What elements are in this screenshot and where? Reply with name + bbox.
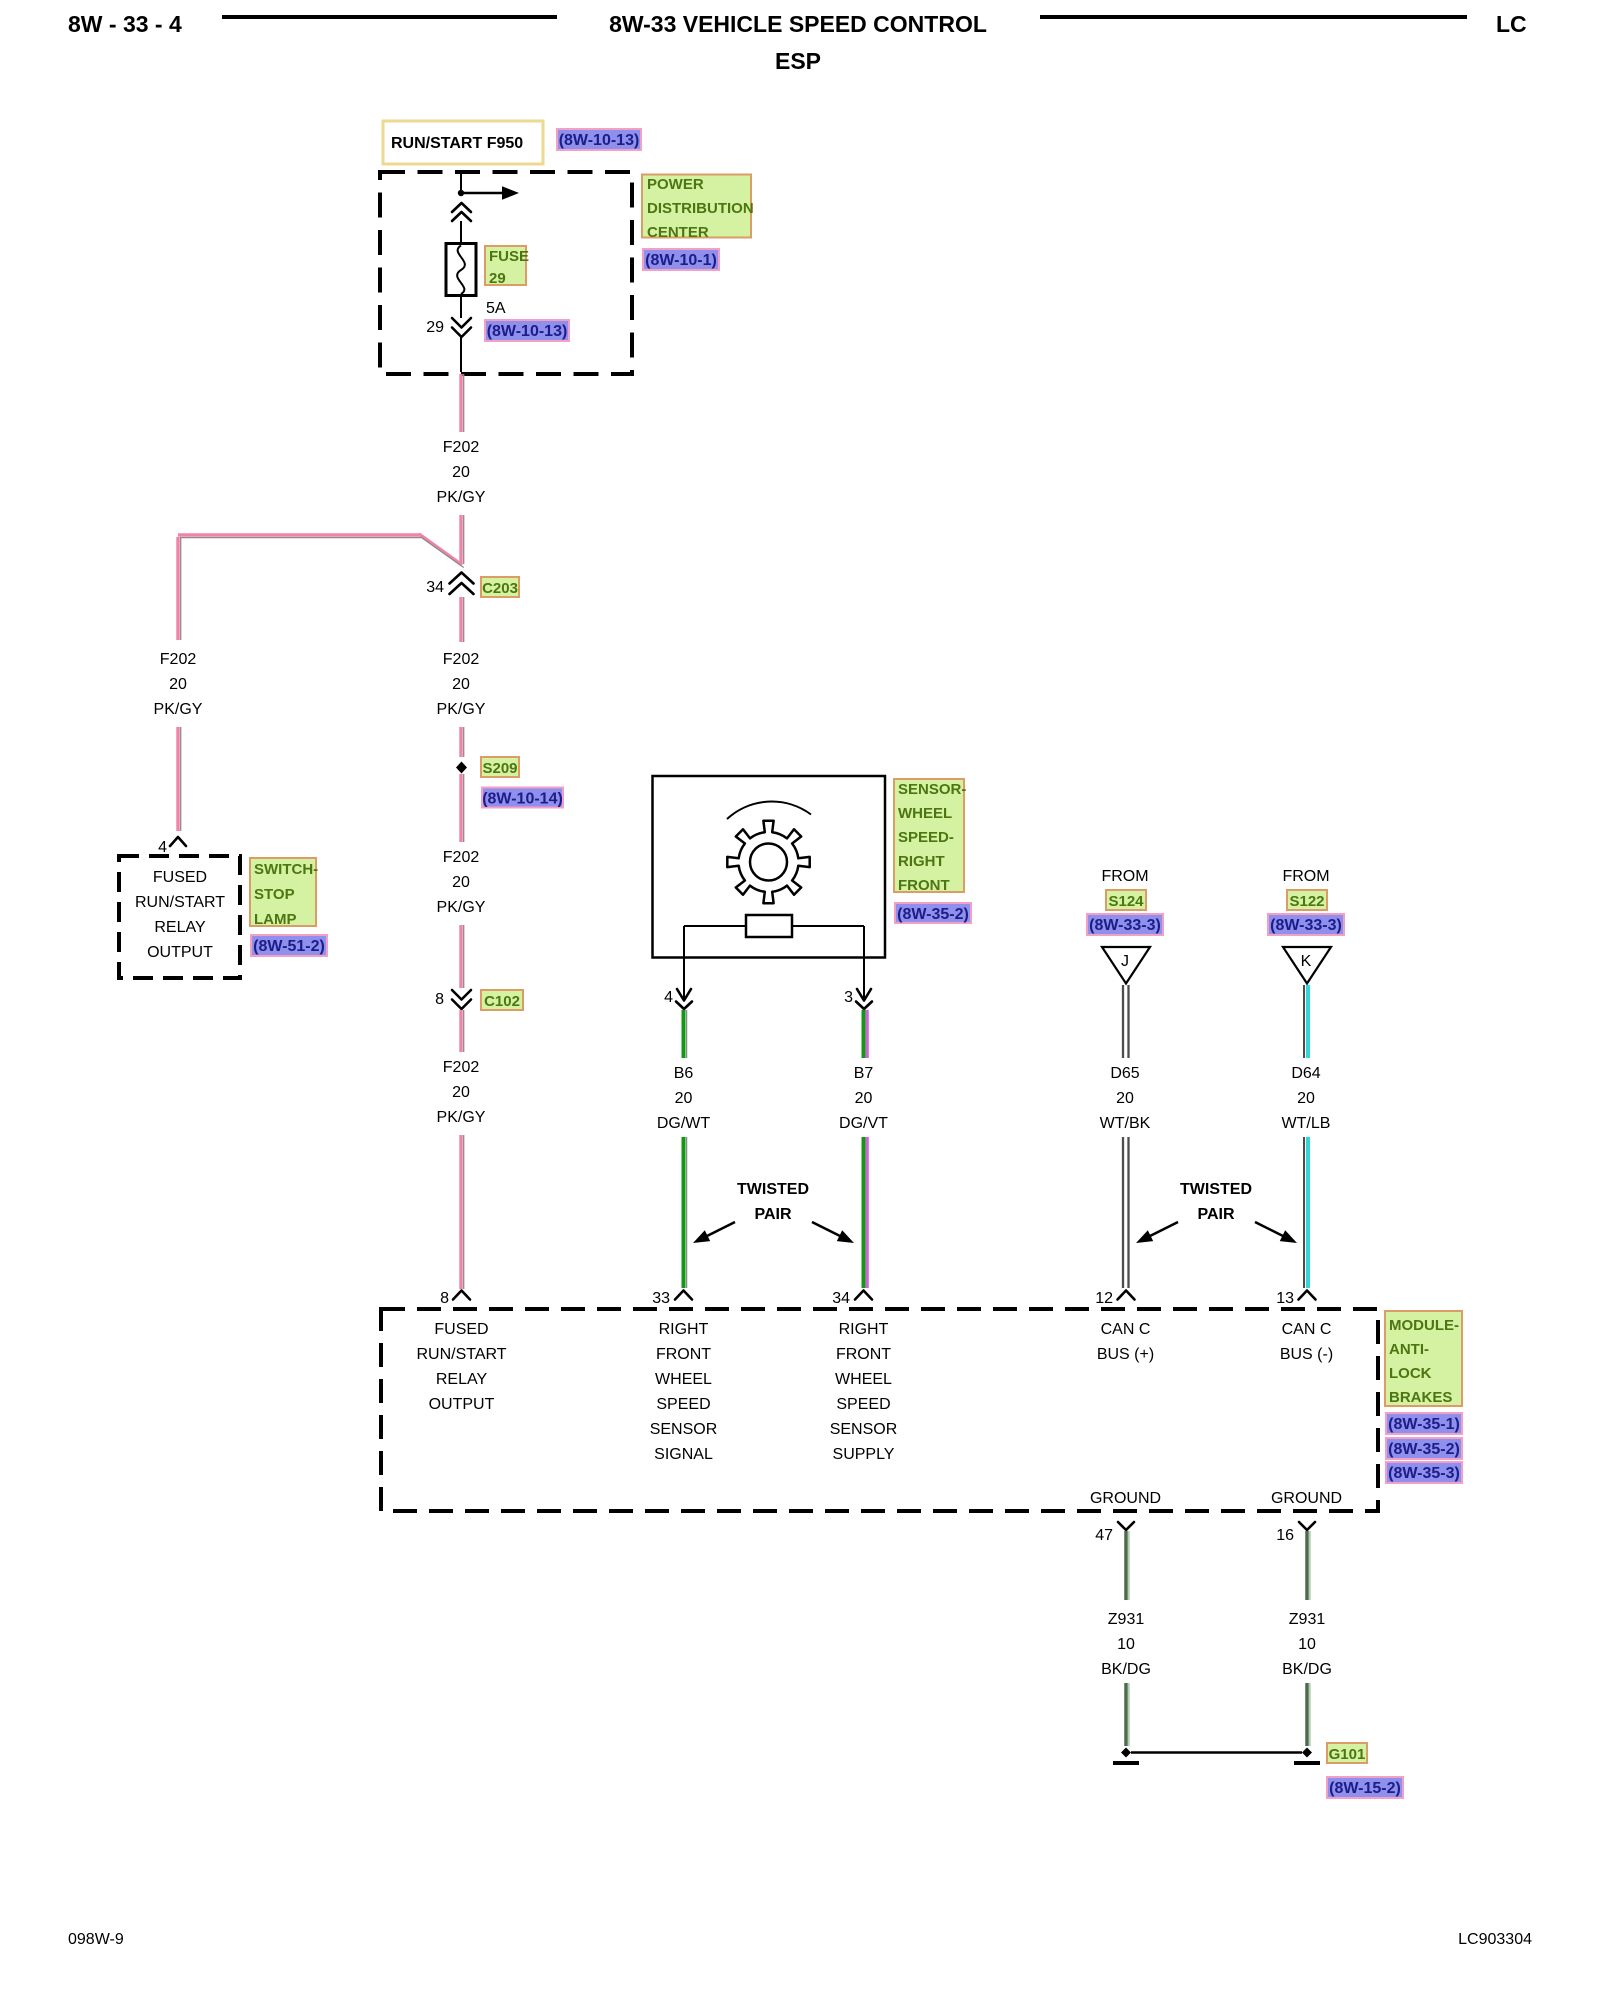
svg-text:(8W-33-3): (8W-33-3)	[1270, 917, 1342, 934]
svg-text:SPEED: SPEED	[656, 1396, 710, 1413]
svg-text:PK/GY: PK/GY	[437, 1109, 486, 1126]
svg-text:20: 20	[452, 1084, 470, 1101]
svg-text:RIGHT: RIGHT	[659, 1321, 709, 1338]
svg-text:RELAY: RELAY	[154, 919, 206, 936]
svg-text:20: 20	[675, 1090, 693, 1107]
svg-text:(8W-35-2): (8W-35-2)	[897, 906, 969, 923]
svg-text:BK/DG: BK/DG	[1282, 1661, 1332, 1678]
svg-text:BRAKES: BRAKES	[1389, 1389, 1452, 1406]
svg-text:WT/LB: WT/LB	[1282, 1115, 1331, 1132]
svg-text:OUTPUT: OUTPUT	[429, 1396, 495, 1413]
svg-text:FROM: FROM	[1101, 868, 1148, 885]
svg-text:SPEED-: SPEED-	[898, 829, 954, 846]
svg-text:ANTI-: ANTI-	[1389, 1341, 1429, 1358]
svg-text:FRONT: FRONT	[656, 1346, 711, 1363]
svg-text:GROUND: GROUND	[1090, 1490, 1161, 1507]
svg-text:(8W-35-2): (8W-35-2)	[1388, 1441, 1460, 1458]
svg-text:10: 10	[1298, 1636, 1316, 1653]
svg-text:RUN/START: RUN/START	[416, 1346, 506, 1363]
svg-text:G101: G101	[1329, 1746, 1366, 1763]
svg-text:STOP: STOP	[254, 886, 295, 903]
svg-text:8W - 33 - 4: 8W - 33 - 4	[68, 11, 182, 37]
svg-text:FUSE: FUSE	[489, 248, 529, 265]
svg-text:PK/GY: PK/GY	[437, 489, 486, 506]
svg-text:J: J	[1121, 953, 1129, 970]
svg-text:20: 20	[169, 676, 187, 693]
svg-text:Z931: Z931	[1289, 1611, 1326, 1628]
svg-text:20: 20	[1297, 1090, 1315, 1107]
svg-text:D64: D64	[1291, 1065, 1320, 1082]
svg-text:SWITCH-: SWITCH-	[254, 861, 318, 878]
svg-text:13: 13	[1276, 1290, 1294, 1307]
svg-text:8: 8	[435, 991, 444, 1008]
svg-text:34: 34	[832, 1290, 850, 1307]
svg-text:16: 16	[1276, 1527, 1294, 1544]
svg-text:CAN C: CAN C	[1282, 1321, 1332, 1338]
svg-text:K: K	[1301, 953, 1312, 970]
svg-text:WT/BK: WT/BK	[1100, 1115, 1151, 1132]
svg-text:Z931: Z931	[1108, 1611, 1145, 1628]
svg-text:CENTER: CENTER	[647, 224, 709, 241]
svg-text:47: 47	[1095, 1527, 1113, 1544]
svg-text:(8W-51-2): (8W-51-2)	[253, 938, 325, 955]
svg-text:F202: F202	[443, 849, 480, 866]
svg-text:34: 34	[426, 579, 444, 596]
svg-text:OUTPUT: OUTPUT	[147, 944, 213, 961]
svg-text:C102: C102	[484, 993, 520, 1010]
svg-text:(8W-10-14): (8W-10-14)	[482, 791, 563, 808]
svg-text:POWER: POWER	[647, 176, 704, 193]
svg-text:8W-33 VEHICLE SPEED CONTROL: 8W-33 VEHICLE SPEED CONTROL	[609, 11, 987, 37]
svg-text:S124: S124	[1108, 893, 1144, 910]
svg-text:F202: F202	[443, 439, 480, 456]
svg-text:BK/DG: BK/DG	[1101, 1661, 1151, 1678]
svg-text:SIGNAL: SIGNAL	[654, 1446, 713, 1463]
svg-text:WHEEL: WHEEL	[655, 1371, 712, 1388]
svg-text:(8W-10-13): (8W-10-13)	[487, 323, 568, 340]
svg-text:(8W-33-3): (8W-33-3)	[1089, 917, 1161, 934]
svg-text:(8W-35-1): (8W-35-1)	[1388, 1416, 1460, 1433]
svg-text:DG/VT: DG/VT	[839, 1115, 888, 1132]
svg-text:LAMP: LAMP	[254, 911, 297, 928]
svg-text:PK/GY: PK/GY	[437, 701, 486, 718]
svg-text:BUS (-): BUS (-)	[1280, 1346, 1333, 1363]
svg-text:F202: F202	[443, 651, 480, 668]
svg-text:S209: S209	[482, 760, 517, 777]
svg-text:PAIR: PAIR	[754, 1206, 791, 1223]
svg-text:SUPPLY: SUPPLY	[833, 1446, 895, 1463]
svg-text:PAIR: PAIR	[1197, 1206, 1234, 1223]
svg-text:5A: 5A	[486, 300, 506, 317]
svg-text:FRONT: FRONT	[898, 877, 950, 894]
svg-text:3: 3	[844, 989, 853, 1006]
svg-text:FRONT: FRONT	[836, 1346, 891, 1363]
svg-text:(8W-35-3): (8W-35-3)	[1388, 1465, 1460, 1482]
svg-text:20: 20	[452, 874, 470, 891]
svg-text:WHEEL: WHEEL	[898, 805, 952, 822]
svg-text:(8W-10-13): (8W-10-13)	[559, 132, 640, 149]
svg-text:RELAY: RELAY	[436, 1371, 488, 1388]
svg-text:20: 20	[452, 676, 470, 693]
svg-text:FROM: FROM	[1282, 868, 1329, 885]
svg-text:S122: S122	[1289, 893, 1324, 910]
svg-text:DG/WT: DG/WT	[657, 1115, 711, 1132]
svg-text:SENSOR: SENSOR	[650, 1421, 718, 1438]
svg-text:ESP: ESP	[775, 48, 821, 74]
svg-text:F202: F202	[443, 1059, 480, 1076]
svg-text:33: 33	[652, 1290, 670, 1307]
svg-text:LC: LC	[1496, 11, 1527, 37]
svg-text:TWISTED: TWISTED	[1180, 1181, 1252, 1198]
svg-text:RIGHT: RIGHT	[898, 853, 945, 870]
svg-text:(8W-10-1): (8W-10-1)	[645, 252, 717, 269]
svg-text:LC903304: LC903304	[1458, 1931, 1532, 1948]
svg-text:10: 10	[1117, 1636, 1135, 1653]
svg-text:DISTRIBUTION: DISTRIBUTION	[647, 200, 754, 217]
svg-text:PK/GY: PK/GY	[437, 899, 486, 916]
svg-text:WHEEL: WHEEL	[835, 1371, 892, 1388]
svg-text:FUSED: FUSED	[153, 869, 207, 886]
svg-text:29: 29	[489, 270, 506, 287]
svg-text:29: 29	[426, 319, 444, 336]
svg-text:SPEED: SPEED	[836, 1396, 890, 1413]
svg-text:4: 4	[158, 839, 167, 856]
svg-text:RIGHT: RIGHT	[839, 1321, 889, 1338]
svg-text:8: 8	[440, 1290, 449, 1307]
svg-text:20: 20	[452, 464, 470, 481]
svg-text:D65: D65	[1110, 1065, 1139, 1082]
svg-text:MODULE-: MODULE-	[1389, 1317, 1459, 1334]
svg-text:20: 20	[855, 1090, 873, 1107]
svg-text:SENSOR: SENSOR	[830, 1421, 898, 1438]
svg-text:(8W-15-2): (8W-15-2)	[1329, 1780, 1401, 1797]
svg-text:12: 12	[1095, 1290, 1113, 1307]
svg-text:4: 4	[664, 989, 673, 1006]
svg-text:C203: C203	[482, 580, 518, 597]
svg-text:B6: B6	[674, 1065, 694, 1082]
svg-text:B7: B7	[854, 1065, 874, 1082]
svg-text:098W-9: 098W-9	[68, 1931, 124, 1948]
svg-text:PK/GY: PK/GY	[154, 701, 203, 718]
svg-text:CAN C: CAN C	[1101, 1321, 1151, 1338]
svg-text:RUN/START: RUN/START	[135, 894, 225, 911]
svg-text:LOCK: LOCK	[1389, 1365, 1432, 1382]
svg-text:RUN/START F950: RUN/START F950	[391, 135, 523, 152]
svg-text:F202: F202	[160, 651, 197, 668]
svg-text:SENSOR-: SENSOR-	[898, 781, 966, 798]
svg-text:20: 20	[1116, 1090, 1134, 1107]
svg-text:BUS (+): BUS (+)	[1097, 1346, 1154, 1363]
svg-text:GROUND: GROUND	[1271, 1490, 1342, 1507]
svg-text:FUSED: FUSED	[434, 1321, 488, 1338]
svg-text:TWISTED: TWISTED	[737, 1181, 809, 1198]
